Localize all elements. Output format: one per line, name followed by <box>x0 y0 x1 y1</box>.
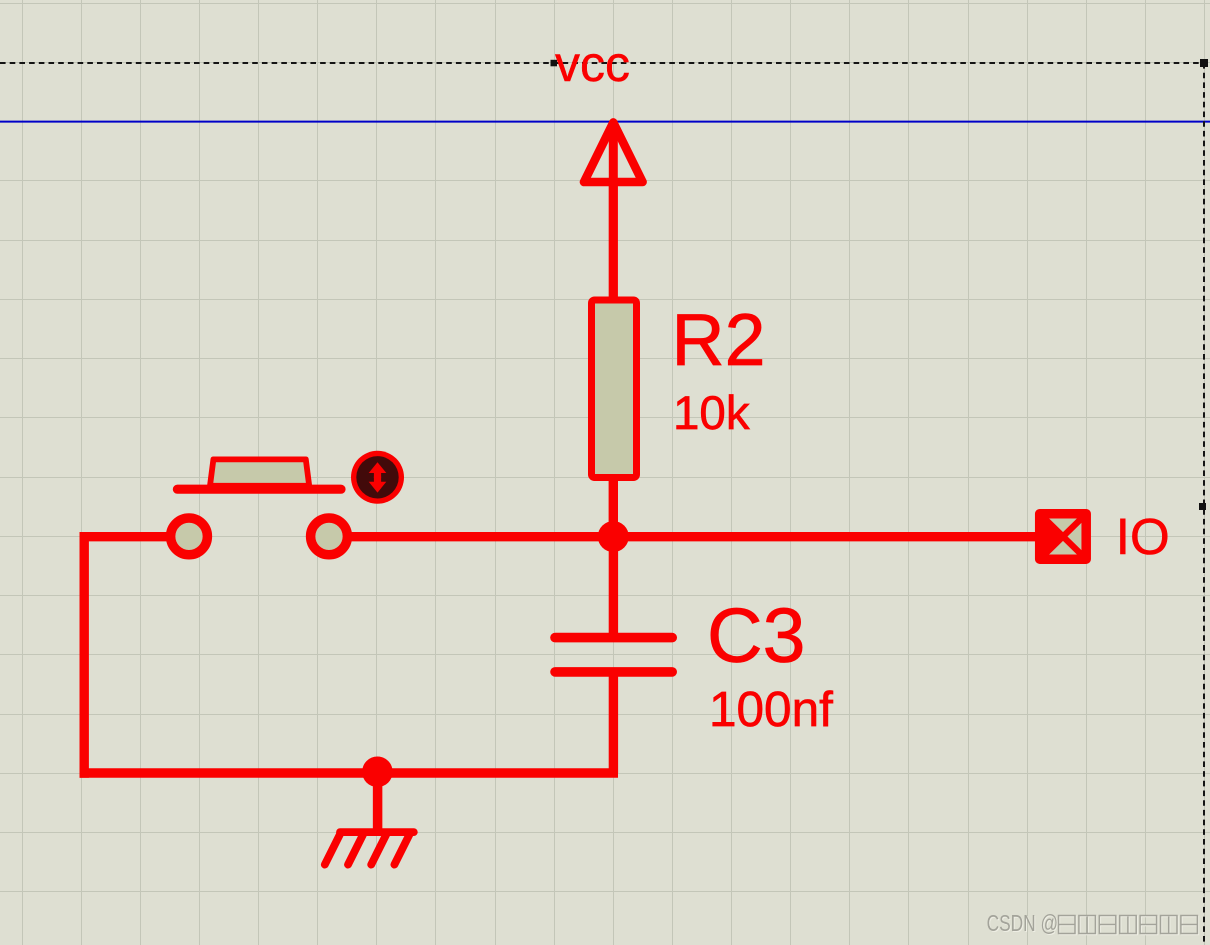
push button right contact <box>311 518 348 555</box>
svg-text:R2: R2 <box>672 298 766 381</box>
svg-text:vcc: vcc <box>555 36 630 92</box>
wire button to node <box>346 532 613 541</box>
capacitor C3 bottom plate <box>555 667 672 677</box>
terminal IO X diagonals <box>1040 514 1086 559</box>
wire node to ground <box>373 772 383 831</box>
power symbol VCC arrow <box>584 123 643 301</box>
selection handle right-middle <box>1199 503 1206 510</box>
resistor R2 <box>592 300 637 478</box>
junction node main <box>598 521 629 552</box>
wire node to IO terminal <box>613 532 1037 541</box>
ground symbol <box>325 832 414 865</box>
wire bottom horizontal <box>80 768 618 778</box>
wire left corner to button <box>80 532 172 541</box>
svg-text:100nf: 100nf <box>709 682 833 737</box>
interactive actuator toggle <box>351 451 404 504</box>
svg-text:IO: IO <box>1116 508 1170 565</box>
push button SW: cap trapezoid <box>210 459 309 485</box>
selection box dashed right edge <box>1203 63 1205 945</box>
junction node ground <box>362 757 393 788</box>
terminal IO box <box>1040 514 1087 560</box>
svg-text:C3: C3 <box>707 593 805 679</box>
wire node to C3 <box>609 537 618 634</box>
capacitor C3 top plate <box>555 633 672 643</box>
wire C3 to bottom <box>609 677 618 774</box>
selection box dashed top edge <box>0 62 1204 64</box>
wire left vertical <box>79 532 88 778</box>
push button actuator bar <box>177 485 341 494</box>
svg-text:10k: 10k <box>673 387 750 440</box>
selection handle top-right <box>1200 59 1208 67</box>
watermark CJK glyph blocks <box>1060 917 1199 935</box>
terminal IO input wedge <box>1040 515 1062 558</box>
wire VCC to R2 <box>609 182 618 298</box>
push button left contact <box>171 518 208 555</box>
blue bus line <box>0 121 1210 123</box>
svg-text:CSDN @: CSDN @ <box>987 910 1059 936</box>
selection handle top-middle <box>551 60 558 67</box>
wire R2 to node <box>609 477 618 540</box>
